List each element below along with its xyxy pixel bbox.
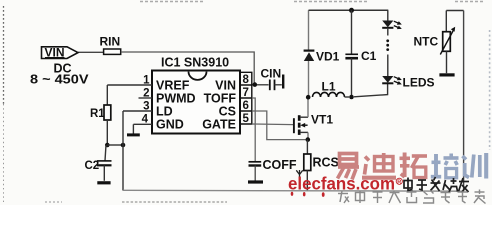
- node: L1/C1 junction: [349, 95, 354, 100]
- pin 4 (GND) line: [133, 114, 152, 126]
- svg-text:C2: C2: [85, 160, 100, 172]
- resistor R1: [90, 85, 111, 145]
- wire: pin 3 column down to bottom rail: [122, 111, 124, 191]
- wire: top rail: [309, 9, 389, 11]
- svg-text:LEDS: LEDS: [403, 76, 435, 90]
- svg-text:GATE: GATE: [202, 118, 236, 132]
- watermark: big char 3 (red): [400, 153, 428, 178]
- svg-text:1: 1: [143, 75, 150, 87]
- wire: VIN to RIN: [78, 51, 104, 53]
- wire: drain up to VD1/L1 node: [307, 97, 309, 117]
- svg-text:L1: L1: [322, 80, 336, 94]
- watermark: logo descender drips: [291, 192, 325, 197]
- svg-text:VREF: VREF: [156, 79, 190, 93]
- svg-text:4: 4: [142, 114, 149, 126]
- watermark: big char 5 (blue): [463, 153, 487, 179]
- svg-text:LD: LD: [156, 105, 173, 119]
- watermark: big char 2 (red): [362, 153, 396, 178]
- pin 3 (LD) line: [123, 101, 152, 113]
- watermark: left dotted edge: [3, 6, 5, 202]
- svg-text:VIN: VIN: [215, 79, 236, 93]
- wire: pin 5 (GATE) to VT1 gate: [252, 123, 293, 126]
- svg-text:7: 7: [242, 87, 248, 99]
- diode VD1 (freewheeling, cathode up): [304, 10, 340, 97]
- wire: NTC top link to right rail: [446, 10, 463, 12]
- watermark: right dotted edge: [489, 30, 491, 150]
- svg-text:R1: R1: [90, 108, 105, 120]
- node: R1/C2 junction: [105, 143, 110, 148]
- node: VD1/L1/drain junction: [306, 95, 311, 100]
- svg-text:elecfans.com: elecfans.com: [288, 174, 395, 194]
- svg-text:8: 8: [242, 74, 249, 86]
- svg-text:TOFF: TOFF: [204, 92, 237, 106]
- svg-text:6: 6: [242, 100, 248, 112]
- wire: bottom rail: [123, 189, 464, 192]
- LED D2 (bottom of string): [382, 55, 434, 90]
- svg-text:CS: CS: [219, 105, 236, 119]
- svg-text:RIN: RIN: [100, 35, 121, 49]
- wire: RIN to pin8 corner: [121, 52, 255, 85]
- svg-text:3: 3: [143, 101, 149, 113]
- watermark: elecfans.com logo text: [288, 174, 402, 194]
- op-amp U1: IC1 SN3910 body: [152, 56, 240, 134]
- svg-text:IC1 SN3910: IC1 SN3910: [161, 56, 229, 70]
- svg-text:PWMD: PWMD: [156, 92, 196, 106]
- wire: right rail down: [463, 11, 465, 192]
- watermark: top dashed segments: [140, 1, 483, 3]
- svg-text:5: 5: [242, 113, 249, 125]
- wire: pin 7 (TOFF) to COFF: [252, 98, 255, 161]
- resistor RIN: [100, 35, 121, 55]
- wire: source down to RCS node: [307, 132, 309, 139]
- svg-text:COFF: COFF: [263, 158, 297, 172]
- capacitor COFF: [248, 158, 297, 182]
- svg-text:R: R: [397, 180, 401, 186]
- pin 2 (PWMD) stub: [139, 88, 153, 100]
- pin 1 (VREF) line: [107, 75, 152, 87]
- watermark: big char 4 (blue): [431, 154, 459, 179]
- thermistor NTC: [414, 11, 456, 75]
- svg-text:2: 2: [143, 88, 149, 100]
- inductor L1: [313, 80, 350, 97]
- svg-text:8 ~ 450V: 8 ~ 450V: [30, 73, 89, 87]
- resistor RCS: [304, 140, 339, 191]
- node: junction VIN/pin8/CIN: [253, 82, 258, 87]
- svg-text:RCS: RCS: [313, 156, 339, 170]
- ground (pin 4): [127, 124, 140, 135]
- node: source/RCS junction: [306, 137, 311, 142]
- node: LD column junction: [121, 143, 126, 148]
- LED D1 (top of string): [382, 10, 402, 35]
- wire: C1 node to LED string bottom: [354, 84, 388, 97]
- node: top rail / C1 junction: [349, 8, 354, 13]
- wire: pin 6 (CS) to source/RCS node: [252, 111, 306, 140]
- wire: R1 node to LD column: [107, 144, 123, 146]
- svg-text:NTC: NTC: [414, 34, 439, 48]
- svg-text:GND: GND: [156, 118, 184, 132]
- node VIN (input terminal): [30, 46, 89, 87]
- svg-text:CIN: CIN: [261, 67, 282, 81]
- capacitor CIN: [257, 67, 283, 91]
- watermark: antenna mark above logo: [296, 170, 302, 179]
- transistor VT1 (N-MOSFET): [294, 112, 333, 135]
- pin boxes 8..5 on right side: [240, 72, 252, 125]
- node: LED string continuation dots: [386, 39, 389, 51]
- capacitor C1: [345, 10, 376, 97]
- svg-text:C1: C1: [361, 49, 377, 63]
- svg-text:VD1: VD1: [316, 49, 340, 63]
- watermark: script char row (dark): [404, 177, 469, 193]
- watermark: big char 1 (red): [338, 154, 360, 180]
- watermark: grey char row: [338, 190, 486, 204]
- svg-text:VT1: VT1: [311, 112, 333, 126]
- watermark: bottom dashed segments: [45, 201, 227, 203]
- capacitor C2: [85, 145, 112, 183]
